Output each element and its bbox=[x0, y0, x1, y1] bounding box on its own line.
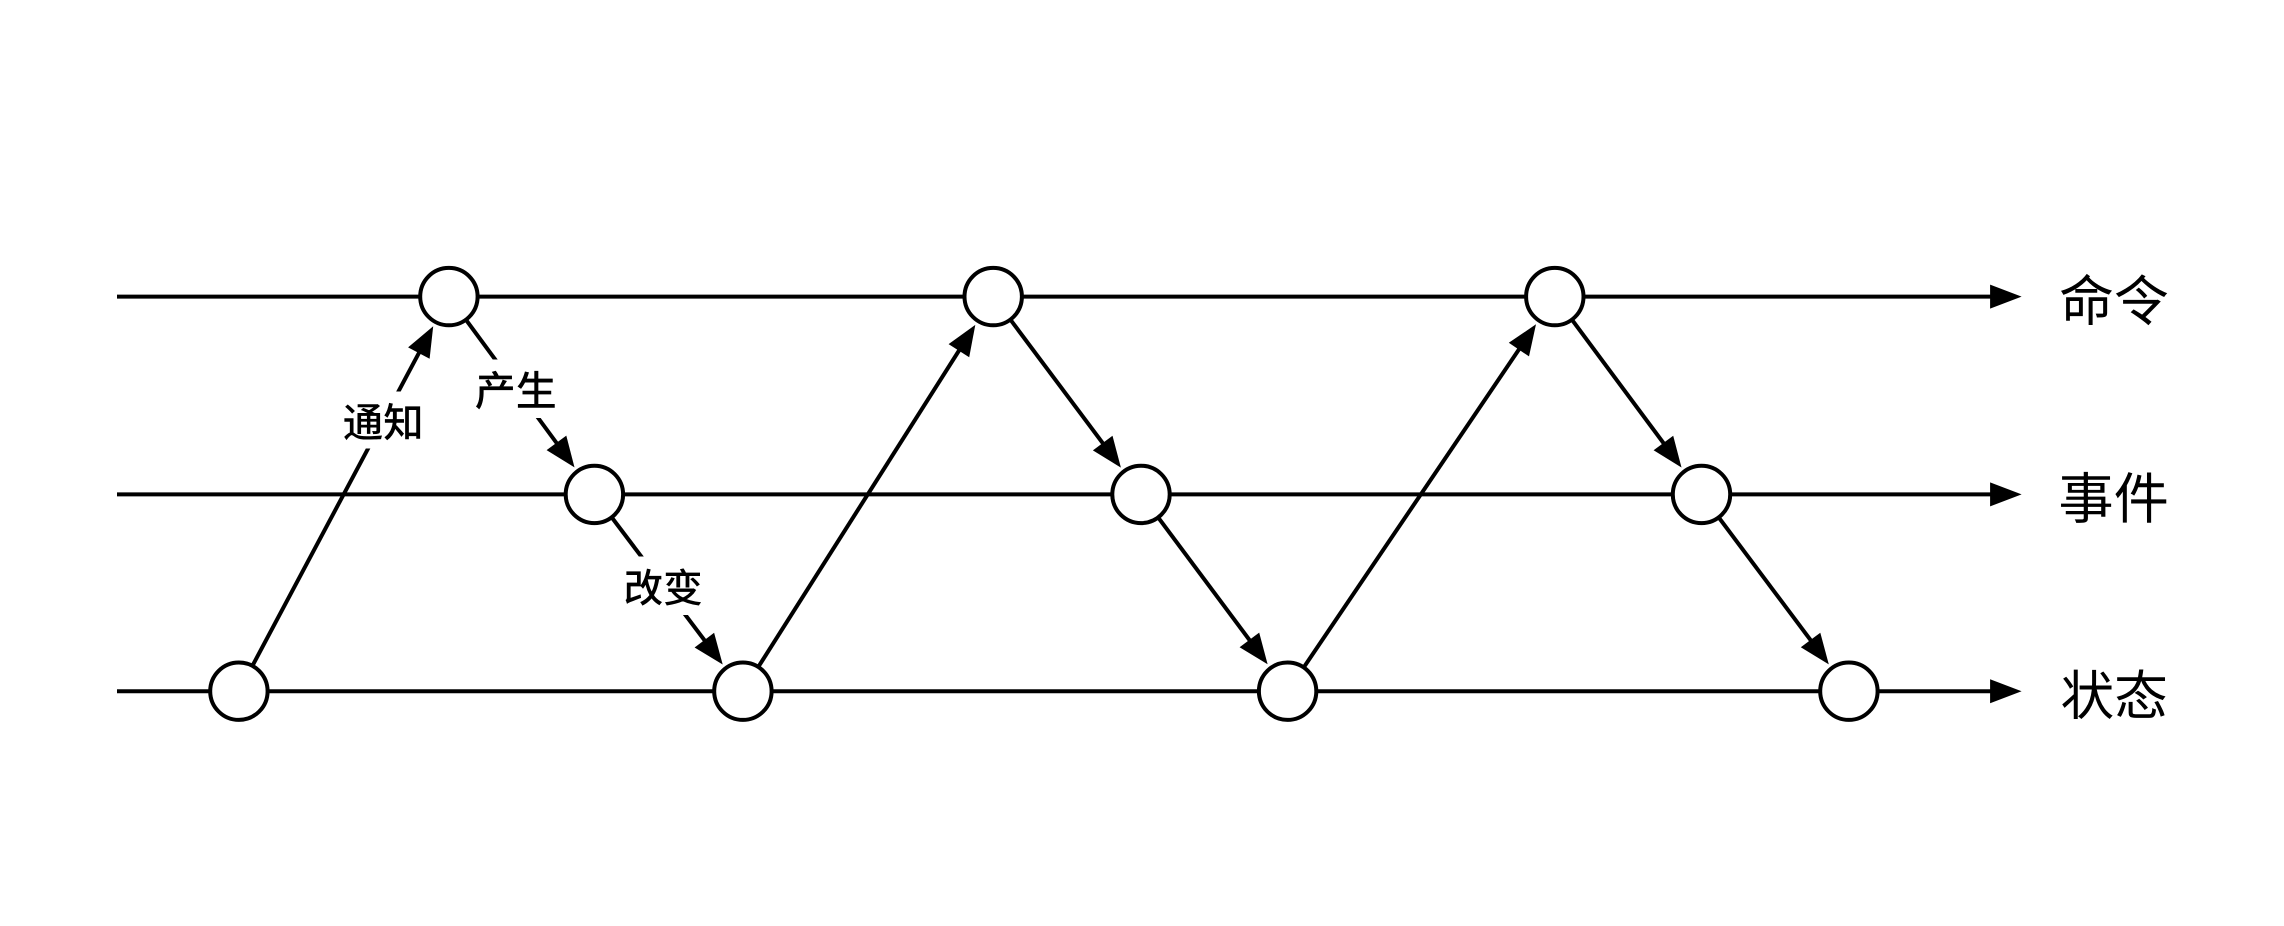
wire: arrow event→state #3 bbox=[1702, 494, 1812, 641]
arrowhead of arrow 改变 (event→state) bbox=[695, 633, 723, 665]
axis label 事件 bbox=[2061, 472, 2166, 523]
arrowhead of arrow event→state #3 bbox=[1801, 633, 1829, 665]
arrowhead of arrow state→command #2 bbox=[949, 325, 976, 357]
arrowhead of 命令 timeline axis bbox=[1990, 285, 2022, 309]
arrowhead of arrow 通知 (state→command) bbox=[408, 326, 433, 359]
node event 3 (circle) bbox=[1673, 466, 1730, 523]
arrowhead of 状态 timeline axis bbox=[1990, 679, 2022, 703]
node event 2 (circle) bbox=[1112, 466, 1169, 523]
node command 2 (circle) bbox=[965, 268, 1022, 325]
label 产生 bbox=[472, 360, 559, 419]
wire: arrow 通知 (state→command) bbox=[239, 351, 420, 691]
wire: 命令 timeline axis bbox=[117, 295, 1992, 299]
label 通知 bbox=[338, 392, 426, 449]
arrowhead of 事件 timeline axis bbox=[1990, 482, 2022, 506]
node event 1 (circle) bbox=[566, 466, 623, 523]
wire: arrow state→command #3 bbox=[1288, 348, 1520, 691]
arrowhead of arrow state→command #3 bbox=[1509, 324, 1536, 356]
arrowhead of arrow event→state #2 bbox=[1240, 633, 1268, 665]
wire: arrow state→command #2 bbox=[743, 349, 960, 691]
wire: arrow event→state #2 bbox=[1141, 494, 1251, 641]
wire: arrow 产生 (command→event) bbox=[449, 297, 558, 445]
node state 1 (circle) bbox=[210, 663, 267, 720]
node command 1 (circle) bbox=[420, 268, 477, 325]
node state 3 (circle) bbox=[1259, 663, 1316, 720]
wire: arrow command→event #3 bbox=[1555, 297, 1665, 445]
node state 2 (circle) bbox=[714, 663, 771, 720]
wire: 事件 timeline axis bbox=[117, 492, 1992, 496]
node state 4 (circle) bbox=[1820, 663, 1877, 720]
label 改变 bbox=[619, 557, 708, 616]
node command 3 (circle) bbox=[1526, 268, 1583, 325]
axis label 状态 bbox=[2062, 670, 2165, 719]
arrowhead of arrow command→event #2 bbox=[1093, 436, 1121, 468]
wire: arrow command→event #2 bbox=[993, 297, 1104, 445]
wire: 状态 timeline axis bbox=[117, 689, 1992, 693]
wire: arrow 改变 (event→state) bbox=[594, 494, 705, 641]
arrowhead of arrow command→event #3 bbox=[1654, 436, 1682, 468]
axis label 命令 bbox=[2061, 274, 2167, 325]
arrowhead of arrow 产生 (command→event) bbox=[547, 436, 575, 468]
